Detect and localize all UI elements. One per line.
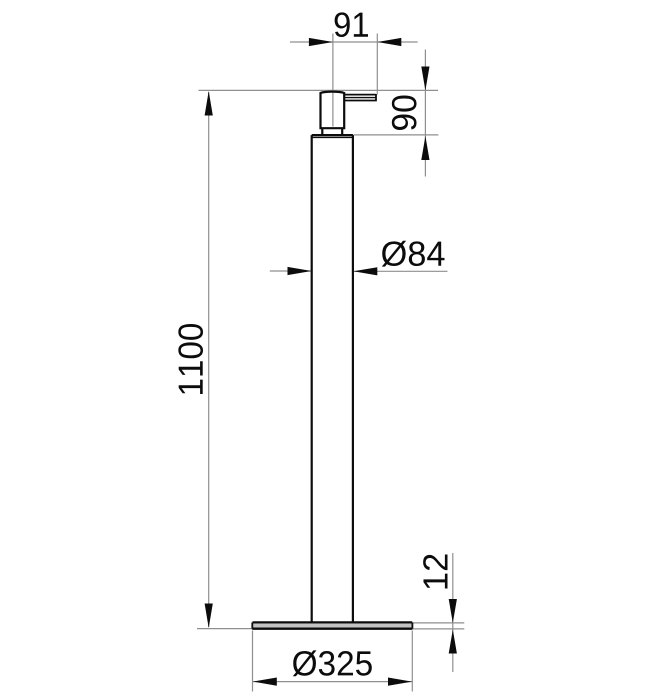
label diameter 325 (293, 650, 372, 676)
arrowhead 90 bottom (421, 136, 429, 160)
column top inner line (312, 136, 353, 138)
pump neck right edge (341, 128, 343, 135)
pump neck left edge (321, 128, 323, 135)
wire 90 dimension line (424, 50, 426, 177)
spout middle edge (344, 97, 376, 99)
wire top extension line y=90 (199, 89, 439, 91)
column left edge (311, 135, 313, 621)
arrowhead diameter 325 right (388, 678, 412, 686)
wire 12 top extension line (413, 622, 464, 624)
arrowhead 1100 bottom (205, 604, 213, 629)
wire diameter 84 right leader (354, 270, 448, 272)
wire 90 bottom extension line (354, 134, 439, 136)
arrowhead diameter 84 right (353, 267, 377, 275)
wire 12 dimension line (452, 553, 454, 672)
spout top edge (344, 94, 376, 96)
wire 1100 bottom extension line (197, 628, 252, 630)
base plate right end (411, 622, 413, 628)
wire 91 left extension line (332, 34, 334, 127)
wire 12 bottom extension line (413, 628, 464, 630)
column top cap line (312, 134, 353, 136)
wire 1100 dimension line (208, 92, 210, 627)
label 90 (392, 96, 417, 131)
arrowhead diameter 325 left (253, 678, 277, 686)
arrowhead 12 top (449, 599, 457, 623)
pump head body (321, 92, 345, 129)
base plate bottom edge (252, 628, 412, 630)
base plate shading (253, 624, 412, 628)
label 91 (335, 12, 368, 37)
wire diameter 325 left extension line (252, 631, 254, 692)
arrowhead 1100 top (205, 91, 213, 116)
wire 91 right extension line (376, 34, 378, 95)
wire diameter 84 left leader (270, 270, 311, 272)
spout bottom edge (344, 100, 377, 102)
arrowhead 91 left (309, 38, 333, 46)
label 12 (423, 554, 447, 588)
label diameter 84 (382, 241, 445, 267)
arrowhead 12 bottom (449, 630, 457, 654)
arrowhead 91 right (377, 38, 401, 46)
column right edge (352, 135, 354, 621)
label 1100 (178, 324, 203, 394)
wire 91 dimension line (290, 41, 418, 43)
wire diameter 325 right extension line (411, 631, 413, 692)
base plate top edge (253, 621, 413, 623)
arrowhead diameter 84 left (288, 267, 312, 275)
base plate left end (251, 622, 253, 628)
spout end cap (375, 94, 377, 100)
wire diameter 325 dimension line (253, 681, 413, 683)
arrowhead 90 top (421, 67, 429, 91)
